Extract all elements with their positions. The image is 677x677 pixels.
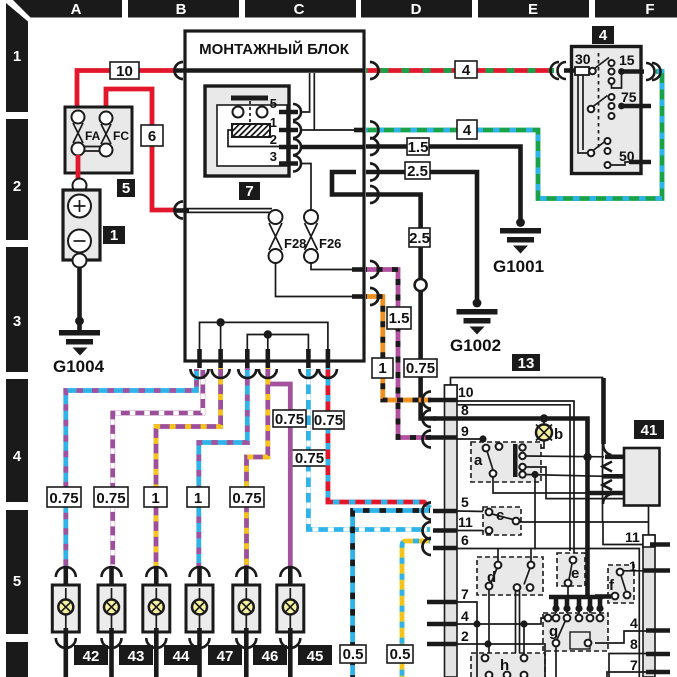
wire black from exit to block13 terminal 8 (with 2.5/0.75 labels) <box>366 195 436 419</box>
junction dot jumper t4 <box>264 330 272 338</box>
top coordinate bar segment F <box>595 0 677 18</box>
wire c to block corner <box>520 521 603 523</box>
block13 right connector strip <box>643 535 655 677</box>
wire orange/black to block13 terminal 10 <box>366 297 431 401</box>
block 13 outline <box>451 378 603 523</box>
wire cyan/black to block13 terminal 5 going down <box>353 511 430 677</box>
MONTAGE BLOCK <box>174 31 379 378</box>
wire corner to right slot <box>603 521 649 523</box>
contact circles column middle <box>609 94 615 100</box>
switch h box <box>471 653 545 677</box>
terminal 2 stub and label <box>427 642 457 647</box>
terminal 9 stub and label <box>429 435 457 440</box>
switch c box <box>483 507 521 535</box>
wire F26 bottom to purple exit <box>311 263 356 270</box>
label 1 (battery designator) <box>103 226 125 244</box>
svg-text:5: 5 <box>122 180 130 197</box>
wire cyan/purple montage t1 to lamp 42 <box>66 369 197 567</box>
thick wire from top edge to 41 <box>601 378 606 444</box>
svg-text:a: a <box>474 452 483 469</box>
svg-text:6: 6 <box>461 532 469 548</box>
top coordinate bar segment A <box>13 0 122 18</box>
wire pin3 down to fuse F26 <box>300 164 311 212</box>
wire corner to right terminal 11 <box>603 522 643 545</box>
junction dot above G1002 <box>473 299 482 308</box>
svg-text:15: 15 <box>619 52 635 68</box>
label 6 <box>141 125 163 146</box>
internal bracket joining exits 2.5 and lower <box>332 172 363 195</box>
svg-text:МОНТАЖНЫЙ БЛОК: МОНТАЖНЫЙ БЛОК <box>199 40 350 58</box>
label 0.75 lamp43 wire <box>94 487 128 507</box>
label 2.5 on black wire <box>409 228 430 247</box>
wire purple/black to block13 terminal 9 <box>366 270 431 438</box>
ground G1001 <box>493 228 544 276</box>
wire right terminal 8 down <box>609 654 648 677</box>
ignition switch 4 label <box>592 26 614 44</box>
link bar between FA and FC bottoms <box>84 147 100 152</box>
terminal 11 stub and label <box>433 528 457 533</box>
svg-text:43: 43 <box>128 648 145 665</box>
svg-text:7: 7 <box>630 657 638 673</box>
left coordinate bar segment 3 <box>6 247 28 372</box>
lamp 44 <box>143 567 198 677</box>
thick bus to f <box>595 594 611 599</box>
terminal 30 slot <box>575 67 589 75</box>
svg-text:G1004: G1004 <box>53 357 105 376</box>
wire right terminal 4 to switch g <box>595 631 648 643</box>
ground G1002 <box>450 309 501 355</box>
svg-text:1: 1 <box>13 48 21 65</box>
wire battery negative to ground <box>77 267 82 332</box>
relay 7 inner frame <box>217 105 287 166</box>
svg-text:1: 1 <box>151 490 159 507</box>
left coordinate bar segment 1 <box>6 3 28 112</box>
drop wire from dot <box>534 475 536 550</box>
41 stub 2 <box>603 474 624 479</box>
svg-text:4: 4 <box>13 448 22 465</box>
MIDDLE WIRES <box>291 195 437 677</box>
wire entry-6 to fuse F28 (double line) <box>186 209 272 213</box>
label 1 lamp44 wire <box>144 487 167 507</box>
LEFT AREA <box>53 62 183 376</box>
thick bus g <box>549 595 603 600</box>
connector arc at block entry y=210 <box>175 202 184 219</box>
svg-text:45: 45 <box>307 648 324 665</box>
wire purple/white to lamp 43 <box>113 369 203 567</box>
label 10 <box>110 62 139 80</box>
top coordinate bar segment D <box>361 0 472 18</box>
fuse F26 <box>304 210 341 263</box>
wire terminal 2 internal <box>457 644 545 677</box>
battery 1 <box>63 179 100 268</box>
wire terminal 5 to switch c <box>457 510 485 513</box>
svg-text:F: F <box>645 1 654 18</box>
svg-text:4: 4 <box>599 27 608 44</box>
thick stub at green wire exit <box>354 128 363 133</box>
svg-text:0.75: 0.75 <box>232 490 261 507</box>
svg-text:30: 30 <box>575 51 591 67</box>
LAMPS <box>47 368 332 677</box>
label 13 <box>512 354 540 372</box>
wire cyan/white montage t5 to block13 terminal 11 <box>308 368 430 530</box>
svg-text:1: 1 <box>270 115 277 130</box>
label 1 on orange/black wire <box>372 358 393 378</box>
label 0.75 on cyan/white wire <box>291 450 328 467</box>
svg-text:4: 4 <box>630 615 638 631</box>
switch stage contacts <box>589 68 596 75</box>
wire pin2 to right edge (1.5 exit) <box>300 145 363 150</box>
svg-text:8: 8 <box>630 636 638 652</box>
connector arcs overlay (montage edges) <box>175 62 432 555</box>
top coordinate bar segment E <box>478 0 589 18</box>
switch d box <box>477 557 543 595</box>
right edge exit connector arcs <box>370 62 379 305</box>
open splice circle on black wire <box>415 279 427 291</box>
terminal 4 stub and label <box>427 622 457 627</box>
wire purple/yellow montage t2 to lamp 44 <box>156 368 221 567</box>
41 connector chevrons and arcs <box>603 462 613 472</box>
right terminal 4 stub and label <box>646 628 670 633</box>
svg-text:0.5: 0.5 <box>390 646 411 663</box>
svg-text:41: 41 <box>641 422 658 439</box>
lamp 47 <box>186 567 242 677</box>
relay 7 coil (hatched) <box>232 124 270 137</box>
svg-text:7: 7 <box>461 586 469 602</box>
41 stub 3 <box>588 491 625 496</box>
d drops down <box>489 590 520 677</box>
svg-text:0.75: 0.75 <box>295 450 324 467</box>
relay 7 top contact bar <box>231 96 268 101</box>
wire F28 bottom to orange exit <box>276 263 357 297</box>
wire red battery-to-block (section 10) <box>77 71 176 118</box>
wire f to right terminal 1 <box>624 570 644 572</box>
switch f box <box>608 565 634 603</box>
terminal 7 stub and label <box>427 600 457 605</box>
lamp 43 <box>98 567 153 677</box>
lamp b <box>526 421 564 448</box>
svg-text:7: 7 <box>245 183 253 200</box>
wire cyan/purple montage t3 to lamp 47 <box>199 368 248 567</box>
relay pin connector arcs <box>293 104 301 172</box>
svg-text:F28: F28 <box>284 236 306 251</box>
lamp 42 <box>52 567 108 677</box>
svg-text:1.5: 1.5 <box>389 310 410 327</box>
thick stub orange exit <box>352 294 363 299</box>
mounting block outline (МОНТАЖНЫЙ БЛОК) <box>185 31 364 361</box>
right terminal 1 stub and label <box>643 568 670 573</box>
41 connector label <box>634 420 664 439</box>
wire a to right strip slot <box>493 477 590 493</box>
relay 7 pin 2 stub <box>279 145 298 150</box>
junction dot on a-wire <box>531 471 538 478</box>
contact circles column bottom <box>605 138 611 144</box>
svg-text:75: 75 <box>621 89 637 105</box>
svg-text:42: 42 <box>83 648 100 665</box>
top coordinate bar segment B <box>128 0 239 18</box>
svg-text:b: b <box>554 426 563 443</box>
svg-text:2.5: 2.5 <box>407 163 428 180</box>
svg-text:G1002: G1002 <box>450 336 501 355</box>
wire bus drop to pin1 row <box>313 73 315 130</box>
svg-text:11: 11 <box>625 529 640 545</box>
wire terminal 7 internal <box>457 602 477 677</box>
svg-text:3: 3 <box>270 149 277 164</box>
junction dot jumper t2 <box>216 318 224 326</box>
svg-text:2: 2 <box>461 628 469 644</box>
bottom terminal stubs 1..6 <box>197 349 202 368</box>
relay 7 pin 3 stub <box>279 161 298 166</box>
svg-text:6: 6 <box>148 128 156 145</box>
wire a to 41 stub1 <box>526 455 604 458</box>
label 7 (relay designator) <box>239 182 260 200</box>
svg-text:47: 47 <box>217 648 234 665</box>
terminal 50 stub <box>629 160 651 165</box>
block 13 left connector strip <box>445 385 458 677</box>
svg-text:2.5: 2.5 <box>409 230 430 247</box>
right terminal 11 stub and label <box>650 542 670 547</box>
terminal 5 stub and label <box>433 509 457 514</box>
wire terminal10 internal (double) <box>457 401 574 556</box>
wire red/green section 4 to ignition terminal 30 <box>366 68 554 73</box>
internal jumper bus terminals 3-4-5 <box>247 335 308 351</box>
switch g inner box <box>570 632 590 649</box>
thick stub purple exit <box>352 267 363 272</box>
svg-text:1.5: 1.5 <box>408 139 429 156</box>
wire black 2.5 to ground G1002 <box>366 172 477 307</box>
svg-text:0.75: 0.75 <box>96 490 125 507</box>
bottom terminal connector arcs <box>191 369 337 378</box>
svg-text:g: g <box>549 623 558 640</box>
label 0.5 on yellow/cyan wire <box>387 645 413 663</box>
svg-text:3: 3 <box>13 313 21 330</box>
label 0.75 on red/cyan wire <box>313 411 344 429</box>
label 0.75 lamp45 wire <box>273 410 306 428</box>
right terminal 8 stub and label <box>646 652 670 657</box>
svg-text:1: 1 <box>378 360 386 377</box>
wire pin5 to bus <box>300 73 310 112</box>
connector arc at block entry y=70 <box>175 62 184 79</box>
svg-text:11: 11 <box>458 514 473 530</box>
fuse FC <box>100 112 130 157</box>
TOP RIGHT <box>366 26 662 355</box>
label 4 on green/cyan wire <box>457 120 477 139</box>
fuse FA <box>72 111 101 156</box>
label 2.5 <box>405 162 430 180</box>
d stubs up to wire6 <box>498 549 531 562</box>
label 1.5 on purple/black wire <box>387 307 411 329</box>
switch h contacts <box>482 655 489 662</box>
terminal 6 stub and label <box>433 546 457 551</box>
label 4 on red/green wire <box>455 61 477 79</box>
top coordinate bar segment C <box>245 0 356 18</box>
wire a to 41 middle stub <box>526 475 604 477</box>
lamp 45 <box>277 567 332 677</box>
label 0.5 on cyan/black wire <box>340 645 366 663</box>
junction dot bus/41 stub1 <box>583 453 591 461</box>
switch d contacts <box>495 562 502 569</box>
svg-text:10: 10 <box>116 63 133 80</box>
wire yellow/cyan from block13 terminal 6 down <box>402 541 430 677</box>
terminal 8 stub and label <box>433 416 457 421</box>
svg-text:0.75: 0.75 <box>314 412 343 429</box>
svg-text:10: 10 <box>458 384 474 400</box>
left coordinate bar segment 5 <box>6 510 28 634</box>
switch a contacts <box>483 445 490 452</box>
relay 7 pin 5 stub <box>279 110 298 115</box>
switch e contacts <box>570 557 577 564</box>
svg-text:4: 4 <box>463 122 472 139</box>
relay a contact column <box>519 444 525 450</box>
svg-text:0.75: 0.75 <box>406 360 435 377</box>
relay 7 contact circles <box>233 107 244 118</box>
svg-text:5: 5 <box>270 96 277 111</box>
junction dot bus/lamp b <box>540 414 548 422</box>
relay 7 coil wire to pin 2 <box>228 130 280 147</box>
svg-text:1: 1 <box>194 490 202 507</box>
ignition switch 4 body <box>572 47 642 174</box>
wire solid purple branch to lamp 45 <box>267 384 291 567</box>
right terminal 7 stub and label <box>646 670 670 675</box>
svg-text:9: 9 <box>461 423 469 439</box>
junction dot above G1001 <box>516 218 525 227</box>
terminal 10 stub and label <box>429 398 457 403</box>
svg-text:5: 5 <box>461 494 469 510</box>
svg-text:FA: FA <box>85 129 101 143</box>
thick bus from terminal 8 <box>457 419 588 598</box>
wire red/cyan montage t6 to block13 terminal 5 <box>328 368 430 508</box>
junction dot above G1004 <box>75 317 84 326</box>
terminal 15 stub <box>624 69 644 74</box>
dashed actuator line <box>598 53 600 150</box>
svg-text:2: 2 <box>13 178 21 195</box>
switch f contacts <box>617 569 624 576</box>
41 stub 1 <box>605 454 624 459</box>
relay 7 pin 1 stub <box>279 128 298 133</box>
label 5 (fuse box designator) <box>117 179 135 197</box>
lamp 46 <box>233 567 287 677</box>
wire red FA to battery <box>76 155 81 182</box>
svg-text:0.75: 0.75 <box>49 490 78 507</box>
svg-text:G1001: G1001 <box>493 257 544 276</box>
svg-text:5: 5 <box>13 573 21 590</box>
terminal 30 stub <box>564 68 575 73</box>
wire red fuse FC to block entry (section 6) <box>106 89 176 210</box>
terminal 75 stub <box>624 104 651 109</box>
wire purple/yellow montage t4 to lamp 46 <box>247 368 268 567</box>
svg-text:4: 4 <box>462 62 471 79</box>
wire black 1.5 to ground G1001 <box>366 147 521 227</box>
switch e box <box>557 553 585 586</box>
connector arcs at terminal 15 <box>646 63 661 80</box>
wire right terminal 7 <box>607 672 646 677</box>
svg-text:E: E <box>528 1 538 18</box>
switch g box <box>543 613 608 651</box>
svg-text:C: C <box>294 1 305 18</box>
svg-text:F26: F26 <box>319 236 341 251</box>
switch c contacts <box>486 509 493 516</box>
left coordinate bar segment 4 <box>6 379 28 502</box>
relay 7 outer box <box>205 86 289 176</box>
internal link wires <box>578 76 588 154</box>
label 1.5 <box>407 138 429 156</box>
wire terminal 6 internal <box>457 549 639 677</box>
svg-text:44: 44 <box>173 648 190 665</box>
relay a coil bar <box>513 444 518 477</box>
switch g contacts top row <box>545 615 552 622</box>
wire green/cyan section 4 loop to ignition terminal 15 <box>366 72 662 199</box>
ground G1004 <box>53 330 105 376</box>
svg-text:4: 4 <box>461 608 469 624</box>
internal jumper bus terminals 1-2-6 <box>200 322 328 350</box>
wire pin1 row to right edge <box>300 129 356 131</box>
svg-text:0.5: 0.5 <box>343 646 364 663</box>
wire terminal 4 internal <box>457 618 545 624</box>
svg-text:2: 2 <box>270 132 277 147</box>
svg-text:e: e <box>571 565 579 582</box>
bus drops to g with dots <box>556 597 600 607</box>
svg-text:46: 46 <box>262 648 279 665</box>
connector arcs at terminal 30 <box>551 62 567 79</box>
internal supply bus wire <box>176 68 363 73</box>
connector arcs block13 left <box>423 392 432 556</box>
svg-text:13: 13 <box>518 355 535 372</box>
g drop down <box>555 647 557 677</box>
switch a box <box>471 442 541 482</box>
label 0.75 on black wire <box>404 359 437 377</box>
svg-text:1: 1 <box>110 227 118 244</box>
svg-text:0.75: 0.75 <box>275 411 304 428</box>
switch g bottom contacts <box>553 640 560 647</box>
left coordinate bar segment 2 <box>6 119 28 240</box>
svg-text:1: 1 <box>629 558 637 574</box>
wire terminal 9 to switch a <box>457 439 486 445</box>
BLOCK13 <box>423 354 671 677</box>
left coordinate bar segment 6 (partial) <box>6 642 28 677</box>
41 connector body <box>624 448 660 506</box>
contact circles column top <box>609 60 615 66</box>
svg-text:D: D <box>411 1 422 18</box>
relay 7 dashed actuator link <box>249 101 251 124</box>
label 0.75 lamp42 wire <box>47 487 81 507</box>
svg-text:A: A <box>71 1 82 18</box>
wire terminal 11 to switch c <box>457 530 485 532</box>
svg-text:B: B <box>176 1 187 18</box>
fuse box 5 <box>65 107 132 173</box>
fuse F28 <box>269 210 307 263</box>
svg-text:FC: FC <box>113 129 129 143</box>
label 1 lamp47 wire <box>187 487 209 507</box>
label 0.75 lamp46 wire <box>230 487 264 507</box>
